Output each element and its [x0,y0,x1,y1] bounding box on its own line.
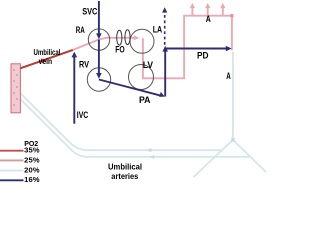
svg-text:35%: 35% [24,145,40,154]
svg-text:RA: RA [76,25,85,35]
svg-text:20%: 20% [24,166,40,175]
svg-text:A: A [226,71,231,81]
svg-text:IVC: IVC [77,110,89,120]
svg-text:LA: LA [153,24,163,34]
svg-text:A: A [206,14,211,24]
svg-text:vein: vein [39,56,53,66]
svg-text:SVC: SVC [82,6,98,16]
svg-text:PA: PA [139,95,151,105]
svg-text:FO: FO [115,44,125,54]
svg-text:25%: 25% [24,155,40,164]
svg-text:16%: 16% [24,175,40,184]
svg-text:LV: LV [143,60,153,70]
svg-text:PD: PD [197,51,209,61]
svg-text:arteries: arteries [111,171,138,181]
svg-text:Umbilical: Umbilical [108,162,142,172]
svg-text:RV: RV [79,59,89,69]
